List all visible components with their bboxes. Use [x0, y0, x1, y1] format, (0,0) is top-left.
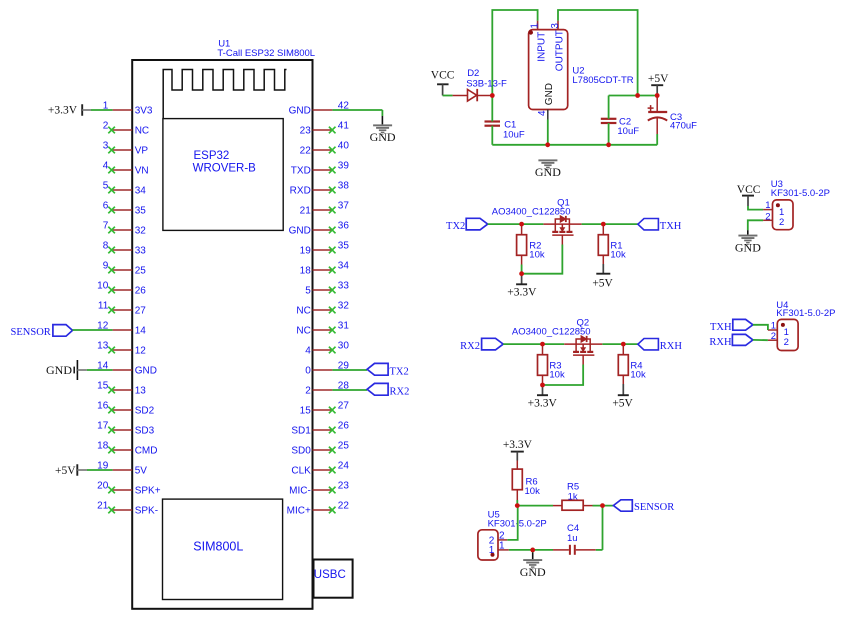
- svg-text:18: 18: [97, 440, 109, 451]
- svg-text:+5V: +5V: [612, 398, 633, 410]
- svg-text:470uF: 470uF: [670, 120, 697, 131]
- svg-text:USBC: USBC: [314, 569, 346, 581]
- svg-text:4: 4: [537, 110, 548, 116]
- svg-text:38: 38: [338, 180, 350, 191]
- svg-text:MIC+: MIC+: [287, 506, 311, 517]
- svg-text:21: 21: [97, 500, 109, 511]
- svg-text:VN: VN: [135, 166, 149, 177]
- svg-text:39: 39: [338, 160, 350, 171]
- svg-text:VP: VP: [135, 146, 149, 157]
- svg-text:11: 11: [98, 300, 109, 311]
- svg-text:L7805CDT-TR: L7805CDT-TR: [572, 75, 633, 86]
- svg-text:8: 8: [103, 240, 109, 251]
- svg-text:+3.3V: +3.3V: [503, 439, 533, 451]
- svg-text:41: 41: [338, 120, 350, 131]
- svg-text:ESP32: ESP32: [194, 150, 230, 162]
- svg-text:RXH: RXH: [660, 341, 683, 352]
- svg-text:6: 6: [103, 200, 109, 211]
- svg-text:T-Call ESP32 SIM800L: T-Call ESP32 SIM800L: [217, 48, 315, 59]
- svg-text:35: 35: [338, 240, 350, 251]
- svg-text:AO3400_C122850: AO3400_C122850: [492, 207, 571, 218]
- svg-text:5V: 5V: [135, 466, 148, 477]
- svg-text:GND: GND: [520, 565, 546, 579]
- svg-text:24: 24: [338, 460, 350, 471]
- svg-text:NC: NC: [296, 326, 310, 337]
- svg-text:CMD: CMD: [135, 446, 158, 457]
- svg-text:GND: GND: [370, 130, 396, 144]
- svg-text:MIC-: MIC-: [289, 486, 311, 497]
- svg-text:S3B-13-F: S3B-13-F: [466, 78, 507, 89]
- svg-text:SD0: SD0: [291, 446, 311, 457]
- svg-text:25: 25: [135, 266, 147, 277]
- svg-text:22: 22: [338, 500, 350, 511]
- svg-text:RX2: RX2: [390, 387, 410, 398]
- svg-text:3V3: 3V3: [135, 106, 153, 117]
- svg-text:+3.3V: +3.3V: [507, 287, 537, 299]
- svg-text:GND: GND: [46, 363, 72, 377]
- svg-text:INPUT: INPUT: [536, 32, 547, 62]
- svg-text:32: 32: [135, 226, 147, 237]
- svg-text:15: 15: [97, 380, 109, 391]
- svg-text:+5V: +5V: [55, 465, 76, 477]
- svg-text:GND: GND: [135, 366, 157, 377]
- svg-text:26: 26: [135, 286, 147, 297]
- svg-text:31: 31: [338, 320, 350, 331]
- svg-text:1: 1: [499, 541, 505, 552]
- svg-text:SENSOR: SENSOR: [11, 327, 51, 338]
- svg-text:SD3: SD3: [135, 426, 155, 437]
- svg-text:20: 20: [97, 480, 109, 491]
- svg-text:23: 23: [300, 126, 312, 137]
- svg-text:RXD: RXD: [290, 186, 311, 197]
- svg-text:+5V: +5V: [592, 278, 613, 290]
- svg-text:14: 14: [135, 326, 147, 337]
- svg-text:+5V: +5V: [648, 73, 669, 85]
- svg-text:0: 0: [305, 366, 311, 377]
- svg-text:KF301-5.0-2P: KF301-5.0-2P: [771, 188, 830, 199]
- svg-text:4: 4: [103, 160, 109, 171]
- svg-text:34: 34: [338, 260, 350, 271]
- svg-text:10k: 10k: [610, 249, 626, 260]
- svg-text:33: 33: [338, 280, 350, 291]
- svg-text:36: 36: [338, 220, 350, 231]
- svg-text:NC: NC: [135, 126, 149, 137]
- svg-text:VCC: VCC: [737, 184, 761, 196]
- svg-text:27: 27: [338, 400, 350, 411]
- svg-text:16: 16: [97, 400, 109, 411]
- svg-text:VCC: VCC: [431, 70, 455, 82]
- svg-text:1: 1: [779, 207, 784, 218]
- svg-text:7: 7: [103, 220, 109, 231]
- svg-text:GND: GND: [289, 226, 311, 237]
- svg-text:TX2: TX2: [446, 221, 465, 232]
- svg-text:15: 15: [300, 406, 312, 417]
- svg-text:2: 2: [305, 386, 311, 397]
- svg-text:34: 34: [135, 186, 147, 197]
- svg-text:10k: 10k: [525, 486, 541, 497]
- svg-text:RXH: RXH: [709, 337, 732, 348]
- svg-text:KF301-5.0-2P: KF301-5.0-2P: [776, 308, 835, 319]
- svg-text:19: 19: [300, 246, 312, 257]
- svg-text:SD2: SD2: [135, 406, 155, 417]
- svg-text:RX2: RX2: [460, 341, 480, 352]
- svg-text:3: 3: [103, 140, 109, 151]
- svg-text:40: 40: [338, 140, 350, 151]
- svg-text:4: 4: [305, 346, 311, 357]
- svg-text:9: 9: [103, 260, 109, 271]
- svg-text:NC: NC: [296, 306, 310, 317]
- svg-text:10uF: 10uF: [617, 126, 639, 137]
- svg-text:SD1: SD1: [291, 426, 311, 437]
- svg-text:OUTPUT: OUTPUT: [555, 30, 566, 71]
- svg-text:10k: 10k: [630, 369, 646, 380]
- svg-text:TX2: TX2: [390, 367, 409, 378]
- svg-text:GND: GND: [735, 240, 761, 254]
- svg-text:2: 2: [103, 120, 109, 131]
- svg-text:35: 35: [135, 206, 147, 217]
- svg-text:1k: 1k: [568, 492, 578, 503]
- svg-text:10uF: 10uF: [503, 130, 525, 141]
- svg-text:GND: GND: [535, 165, 561, 179]
- svg-text:5: 5: [305, 286, 311, 297]
- svg-text:26: 26: [338, 420, 350, 431]
- svg-text:30: 30: [338, 340, 350, 351]
- svg-text:13: 13: [97, 340, 109, 351]
- svg-text:GND: GND: [544, 83, 555, 105]
- svg-text:TXD: TXD: [291, 166, 311, 177]
- svg-text:1: 1: [529, 23, 540, 29]
- svg-text:13: 13: [135, 386, 147, 397]
- svg-text:27: 27: [135, 306, 147, 317]
- svg-text:SPK+: SPK+: [135, 486, 161, 497]
- svg-text:+3.3V: +3.3V: [48, 105, 78, 117]
- svg-text:2: 2: [784, 337, 789, 348]
- svg-text:25: 25: [338, 440, 350, 451]
- svg-text:5: 5: [103, 180, 109, 191]
- svg-text:CLK: CLK: [291, 466, 311, 477]
- svg-text:10k: 10k: [549, 369, 565, 380]
- svg-text:10: 10: [97, 280, 109, 291]
- svg-text:33: 33: [135, 246, 147, 257]
- svg-text:1u: 1u: [567, 533, 578, 544]
- svg-text:AO3400_C122850: AO3400_C122850: [512, 327, 591, 338]
- svg-text:17: 17: [97, 420, 109, 431]
- svg-text:WROVER-B: WROVER-B: [193, 163, 257, 175]
- svg-text:2: 2: [779, 217, 784, 228]
- svg-text:TXH: TXH: [710, 322, 732, 333]
- svg-text:21: 21: [300, 206, 312, 217]
- svg-text:GND: GND: [289, 106, 311, 117]
- svg-text:12: 12: [135, 346, 147, 357]
- svg-text:10k: 10k: [529, 249, 545, 260]
- svg-text:SPK-: SPK-: [135, 506, 158, 517]
- svg-text:23: 23: [338, 480, 350, 491]
- svg-text:32: 32: [338, 300, 350, 311]
- svg-text:18: 18: [300, 266, 312, 277]
- svg-text:TXH: TXH: [660, 221, 682, 232]
- svg-text:22: 22: [300, 146, 312, 157]
- svg-text:SIM800L: SIM800L: [193, 540, 243, 554]
- svg-text:37: 37: [338, 200, 350, 211]
- svg-text:+3.3V: +3.3V: [528, 398, 558, 410]
- svg-text:3: 3: [550, 23, 561, 29]
- svg-text:SENSOR: SENSOR: [634, 502, 674, 513]
- svg-text:1: 1: [489, 545, 495, 556]
